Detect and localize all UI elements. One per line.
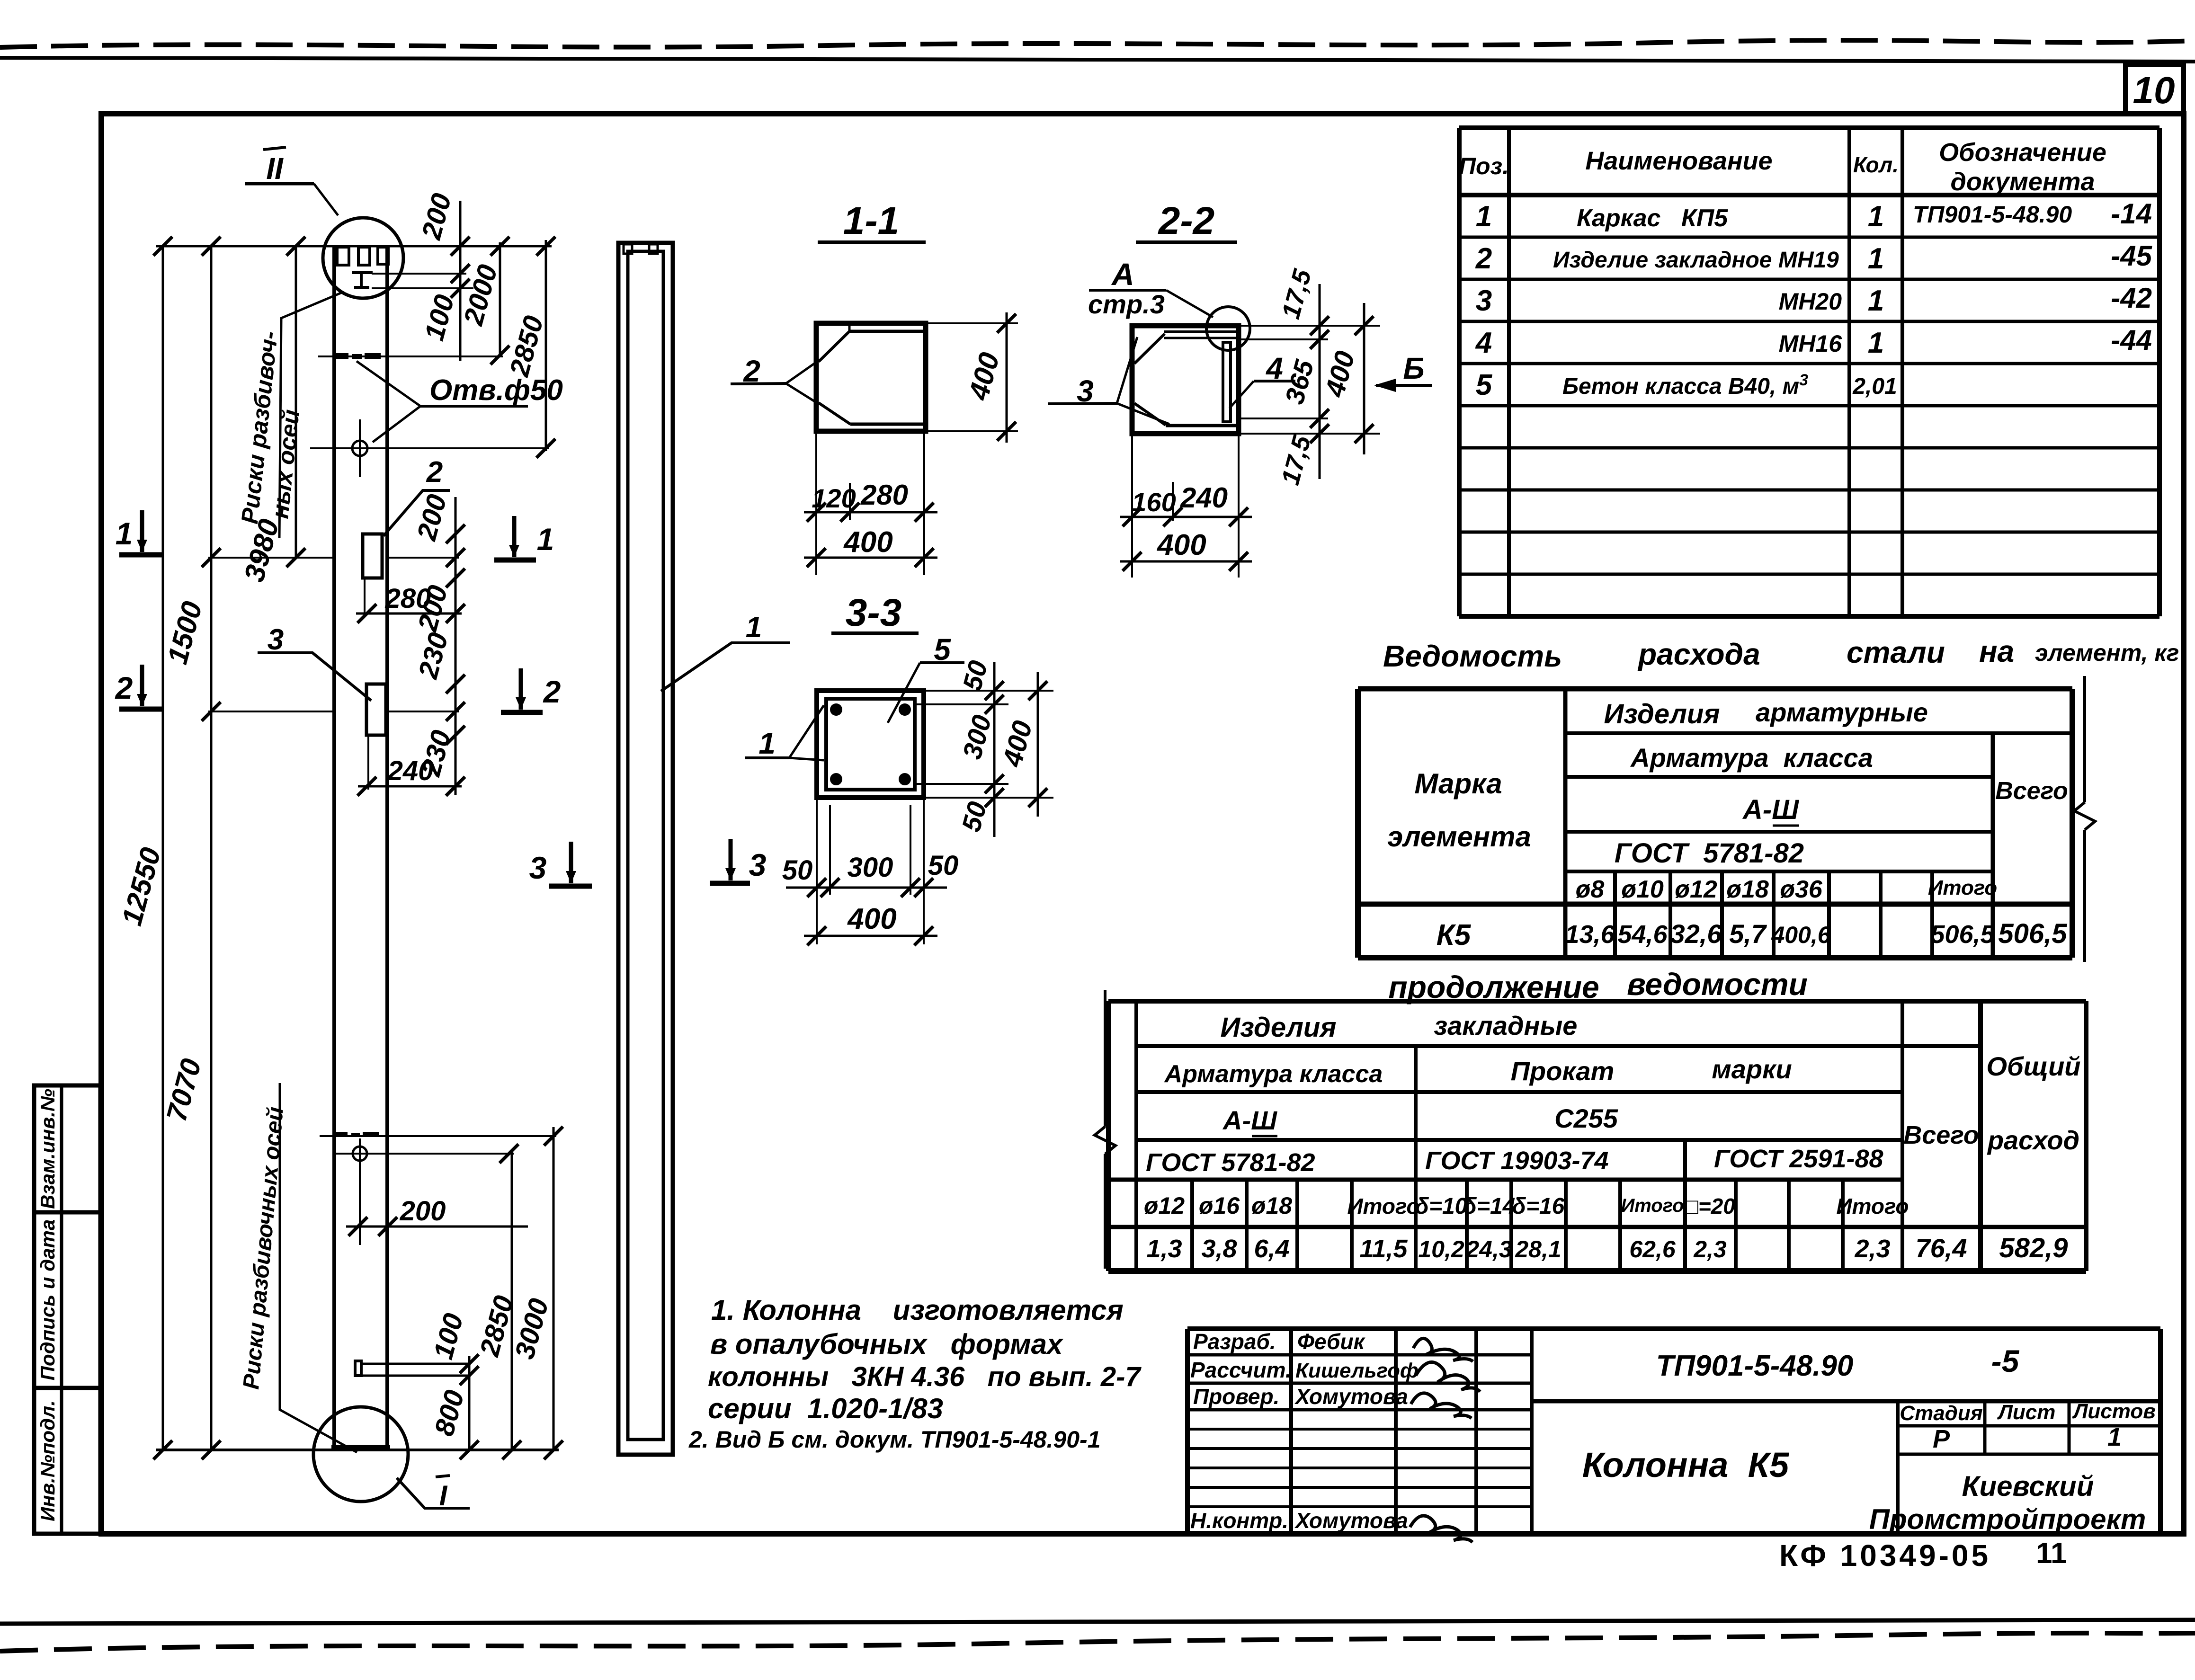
svg-text:-45: -45 bbox=[2111, 240, 2152, 272]
dim chain at plates bbox=[455, 497, 457, 795]
svg-text:Листов: Листов bbox=[2072, 1400, 2156, 1423]
svg-text:11: 11 bbox=[2036, 1537, 2067, 1570]
svg-text:76,4: 76,4 bbox=[1916, 1233, 1967, 1263]
svg-text:Ведомость: Ведомость bbox=[1383, 639, 1562, 673]
svg-text:документа: документа bbox=[1950, 168, 2095, 196]
svg-text:ø12: ø12 bbox=[1675, 876, 1717, 903]
svg-text:Подпись и дата: Подпись и дата bbox=[36, 1219, 59, 1380]
section mark 2 (left) bbox=[119, 707, 162, 712]
svg-text:ø36: ø36 bbox=[1780, 876, 1823, 903]
svg-text:Общий: Общий bbox=[1986, 1051, 2080, 1081]
svg-text:1: 1 bbox=[746, 611, 762, 644]
section line 2-2 bbox=[208, 711, 334, 712]
svg-text:50: 50 bbox=[928, 850, 959, 881]
svg-text:Промстройпроект: Промстройпроект bbox=[1869, 1503, 2146, 1535]
right dims 2-2 bbox=[1239, 325, 1380, 327]
svg-text:50: 50 bbox=[782, 855, 813, 886]
label II with leader bbox=[263, 147, 286, 150]
svg-text:ГОСТ 5781-82: ГОСТ 5781-82 bbox=[1146, 1148, 1315, 1177]
plate edge top bbox=[849, 330, 923, 333]
svg-text:МН20: МН20 bbox=[1779, 288, 1842, 315]
svg-text:62,6: 62,6 bbox=[1629, 1236, 1676, 1262]
svg-text:Провер.: Провер. bbox=[1193, 1384, 1279, 1409]
svg-text:1,3: 1,3 bbox=[1146, 1235, 1182, 1263]
svg-text:Всего: Всего bbox=[1903, 1121, 1979, 1149]
svg-text:3,8: 3,8 bbox=[1201, 1235, 1237, 1263]
top notches bbox=[337, 247, 349, 265]
detail circle A bbox=[1206, 307, 1250, 350]
detail circle I at column bottom bbox=[313, 1407, 408, 1502]
svg-text:ø8: ø8 bbox=[1576, 876, 1605, 903]
svg-text:280: 280 bbox=[860, 479, 908, 511]
top dimension line bbox=[156, 245, 552, 248]
section mark 2 (right) bbox=[501, 710, 543, 715]
svg-text:5: 5 bbox=[1476, 369, 1493, 401]
svg-text:Изделие закладное МН19: Изделие закладное МН19 bbox=[1553, 248, 1839, 273]
svg-text:24,3: 24,3 bbox=[1465, 1236, 1512, 1262]
svg-text:1. Колонна изготовляется: 1. Колонна изготовляется bbox=[711, 1294, 1124, 1326]
svg-text:Обозначение: Обозначение bbox=[1939, 138, 2106, 167]
svg-text:Наименование: Наименование bbox=[1585, 147, 1772, 175]
svg-text:Бетон класса В40, м3: Бетон класса В40, м3 bbox=[1562, 371, 1808, 399]
svg-text:Арматура класса: Арматура класса bbox=[1164, 1060, 1383, 1088]
svg-text:2: 2 bbox=[115, 670, 133, 705]
svg-text:стр.3: стр.3 bbox=[1088, 289, 1165, 319]
svg-text:1-1: 1-1 bbox=[843, 199, 900, 242]
dim 3000 bbox=[553, 1127, 555, 1450]
bottom embedded mark bbox=[355, 1361, 361, 1376]
svg-text:С255: С255 bbox=[1554, 1103, 1618, 1133]
bottom edge line bbox=[0, 1620, 2195, 1624]
svg-text:Прокат: Прокат bbox=[1511, 1056, 1615, 1086]
svg-text:5,7: 5,7 bbox=[1729, 919, 1767, 949]
svg-text:400,6: 400,6 bbox=[1771, 922, 1831, 948]
svg-text:-44: -44 bbox=[2111, 324, 2152, 356]
svg-text:Инв.№подл.: Инв.№подл. bbox=[36, 1400, 59, 1521]
svg-text:Арматура класса: Арматура класса bbox=[1630, 743, 1873, 773]
svg-text:10,2: 10,2 bbox=[1418, 1236, 1464, 1262]
svg-text:-5: -5 bbox=[1991, 1343, 2020, 1378]
svg-text:расход: расход bbox=[1987, 1125, 2079, 1155]
svg-text:Фебик: Фебик bbox=[1297, 1329, 1366, 1354]
svg-text:Н.контр.: Н.контр. bbox=[1190, 1508, 1288, 1533]
chamfer lines bbox=[1134, 334, 1165, 364]
svg-text:Хомутова: Хомутова bbox=[1294, 1384, 1408, 1409]
lower axis marks (riski) bbox=[334, 1132, 348, 1137]
svg-text:6,4: 6,4 bbox=[1254, 1235, 1289, 1263]
svg-text:Отв.ф50: Отв.ф50 bbox=[429, 374, 563, 407]
svg-text:32,6: 32,6 bbox=[1670, 919, 1722, 949]
svg-text:II: II bbox=[266, 151, 284, 186]
bottom wavy scan edge bbox=[0, 1633, 2195, 1651]
svg-text:Кол.: Кол. bbox=[1853, 152, 1899, 177]
svg-text:Киевский: Киевский bbox=[1962, 1470, 2094, 1502]
upper axis marks (riski) bbox=[334, 353, 348, 359]
svg-text:3: 3 bbox=[268, 623, 284, 656]
title block grid bbox=[1185, 1329, 1190, 1534]
column body bbox=[332, 246, 336, 1447]
svg-text:2. Вид Б см. докум. ТП901-5-48: 2. Вид Б см. докум. ТП901-5-48.90-1 bbox=[688, 1426, 1101, 1453]
lower hole bbox=[353, 1147, 367, 1161]
plate edge bottom bbox=[1166, 424, 1236, 427]
svg-text:δ=14: δ=14 bbox=[1463, 1194, 1516, 1219]
plate edges top bbox=[1164, 330, 1236, 333]
svg-text:10: 10 bbox=[2133, 69, 2175, 111]
label I with leader bbox=[397, 1478, 470, 1508]
svg-text:54,6: 54,6 bbox=[1617, 920, 1668, 949]
svg-text:закладные: закладные bbox=[1434, 1011, 1578, 1040]
svg-text:Каркас КП5: Каркас КП5 bbox=[1577, 204, 1728, 232]
section 1-1 square bbox=[816, 323, 926, 431]
svg-text:расхода: расхода bbox=[1637, 637, 1760, 671]
section mark 1 (left) bbox=[119, 552, 162, 558]
svg-text:ГОСТ 5781-82: ГОСТ 5781-82 bbox=[1615, 838, 1804, 869]
svg-text:-42: -42 bbox=[2111, 282, 2152, 314]
left margin attribute boxes bbox=[34, 1085, 100, 1534]
svg-text:1: 1 bbox=[1868, 200, 1884, 233]
section mark 1 (right) bbox=[494, 558, 536, 563]
svg-text:ведомости: ведомости bbox=[1627, 967, 1808, 1002]
svg-text:2: 2 bbox=[426, 456, 443, 489]
svg-text:Изделия: Изделия bbox=[1220, 1012, 1336, 1043]
svg-text:400: 400 bbox=[847, 903, 896, 935]
dim 2850 (bottom) bbox=[511, 1151, 513, 1450]
break line left of continuation table bbox=[1104, 990, 1106, 1127]
dim 400 right bbox=[926, 322, 1018, 324]
column elevation: left dimension lines bbox=[162, 246, 164, 1450]
svg-text:ТП901-5-48.90: ТП901-5-48.90 bbox=[1913, 201, 2072, 228]
profile view outer bbox=[618, 243, 673, 1455]
dims below 2-2 bbox=[1131, 434, 1133, 578]
svg-text:3-3: 3-3 bbox=[846, 591, 902, 634]
dims below 1-1 bbox=[815, 431, 817, 575]
svg-text:элемента: элемента bbox=[1387, 821, 1531, 853]
section line 1-1 bbox=[208, 557, 334, 559]
svg-text:2,01: 2,01 bbox=[1852, 374, 1897, 399]
embedded plate 3 bbox=[366, 684, 386, 735]
plate edge bottom bbox=[850, 423, 923, 426]
continuation table grid bbox=[1106, 1001, 1111, 1271]
dims below 3-3 bbox=[816, 798, 818, 944]
svg-text:506,5: 506,5 bbox=[1998, 918, 2067, 949]
svg-text:Изделия: Изделия bbox=[1604, 699, 1720, 729]
svg-text:582,9: 582,9 bbox=[1999, 1233, 2068, 1263]
section 2-2 square bbox=[1132, 326, 1239, 434]
detail circle II at column top bbox=[323, 218, 403, 298]
svg-text:□=20: □=20 bbox=[1685, 1194, 1735, 1218]
svg-text:3: 3 bbox=[529, 850, 547, 885]
svg-text:1: 1 bbox=[1868, 327, 1884, 359]
signatures bbox=[1413, 1338, 1473, 1361]
svg-text:Хомутова: Хомутова bbox=[1294, 1508, 1408, 1533]
svg-text:Рассчит.: Рассчит. bbox=[1190, 1358, 1292, 1382]
svg-text:1: 1 bbox=[2107, 1423, 2122, 1451]
svg-text:2,3: 2,3 bbox=[1854, 1235, 1890, 1263]
svg-text:1: 1 bbox=[1868, 284, 1884, 317]
svg-text:ø12: ø12 bbox=[1144, 1192, 1185, 1219]
svg-text:3: 3 bbox=[1476, 284, 1492, 317]
dim 100 (bottom) bbox=[468, 1356, 471, 1380]
svg-text:Итого: Итого bbox=[1837, 1194, 1909, 1218]
svg-text:Итого: Итого bbox=[1621, 1195, 1684, 1216]
svg-text:3: 3 bbox=[749, 847, 767, 882]
svg-text:240: 240 bbox=[387, 756, 434, 786]
svg-text:Б: Б bbox=[1403, 351, 1424, 385]
chamfer lines bbox=[819, 331, 849, 362]
svg-text:200: 200 bbox=[400, 1196, 446, 1227]
svg-text:Итого: Итого bbox=[1928, 876, 1997, 899]
sheet number box bbox=[2125, 64, 2184, 114]
svg-text:2: 2 bbox=[1475, 242, 1492, 275]
break line right of steel table bbox=[2083, 676, 2086, 802]
svg-text:1: 1 bbox=[1868, 242, 1884, 275]
svg-text:400: 400 bbox=[1156, 529, 1206, 561]
svg-text:Итого: Итого bbox=[1347, 1194, 1420, 1218]
stirrup inner square bbox=[826, 699, 915, 790]
svg-text:400: 400 bbox=[843, 526, 892, 559]
svg-text:120: 120 bbox=[812, 483, 856, 513]
section 3-3 outer square bbox=[817, 691, 924, 798]
dim 800 bbox=[468, 1364, 471, 1450]
svg-text:в опалубочных формах: в опалубочных формах bbox=[710, 1328, 1064, 1360]
svg-text:К5: К5 bbox=[1437, 919, 1472, 951]
rebar dots bbox=[830, 703, 842, 716]
svg-text:240: 240 bbox=[1180, 482, 1228, 514]
svg-text:280: 280 bbox=[385, 583, 431, 614]
I-shaped axis mark bbox=[352, 271, 373, 274]
svg-text:Взам.инв.№: Взам.инв.№ bbox=[36, 1089, 59, 1209]
svg-text:2: 2 bbox=[543, 674, 561, 709]
svg-text:4: 4 bbox=[1475, 327, 1492, 359]
svg-text:506,5: 506,5 bbox=[1930, 920, 1995, 949]
svg-text:1: 1 bbox=[758, 726, 776, 760]
svg-text:δ=16: δ=16 bbox=[1512, 1194, 1565, 1219]
svg-text:А-Ш: А-Ш bbox=[1742, 794, 1799, 825]
svg-text:Всего: Всего bbox=[1995, 777, 2068, 805]
svg-text:МН16: МН16 bbox=[1779, 330, 1843, 357]
svg-text:28,1: 28,1 bbox=[1515, 1236, 1561, 1262]
svg-text:-14: -14 bbox=[2111, 198, 2152, 230]
profile top notches bbox=[624, 244, 632, 254]
svg-text:160: 160 bbox=[1132, 487, 1176, 517]
svg-text:1: 1 bbox=[1476, 200, 1492, 233]
svg-text:2,3: 2,3 bbox=[1693, 1236, 1727, 1262]
svg-text:серии 1.020-1/83: серии 1.020-1/83 bbox=[708, 1393, 943, 1424]
section mark 3 (left) bbox=[549, 884, 592, 889]
svg-text:δ=10: δ=10 bbox=[1415, 1194, 1468, 1219]
embedded plate 2 bbox=[363, 534, 382, 578]
svg-text:ø10: ø10 bbox=[1621, 876, 1664, 903]
svg-text:Колонна К5: Колонна К5 bbox=[1582, 1445, 1790, 1484]
plate 4 (vertical, right) bbox=[1223, 342, 1231, 422]
svg-text:Поз.: Поз. bbox=[1459, 153, 1509, 179]
svg-text:1: 1 bbox=[537, 522, 554, 557]
svg-text:Лист: Лист bbox=[1997, 1401, 2056, 1424]
upper hole Отв ф50 bbox=[352, 441, 367, 456]
svg-text:элемент, кг: элемент, кг bbox=[2035, 640, 2179, 666]
svg-text:11,5: 11,5 bbox=[1359, 1235, 1408, 1263]
svg-text:13,6: 13,6 bbox=[1565, 920, 1615, 949]
svg-text:Стадия: Стадия bbox=[1900, 1402, 1982, 1425]
profile view inner bbox=[628, 251, 663, 1440]
svg-text:ТП901-5-48.90: ТП901-5-48.90 bbox=[1656, 1350, 1854, 1382]
svg-text:стали: стали bbox=[1847, 635, 1945, 669]
svg-text:ø16: ø16 bbox=[1199, 1192, 1240, 1219]
svg-text:Р: Р bbox=[1933, 1425, 1950, 1453]
svg-text:ø18: ø18 bbox=[1251, 1192, 1292, 1219]
section mark 3 (right) bbox=[710, 881, 750, 886]
svg-text:1: 1 bbox=[116, 516, 133, 551]
svg-text:ø18: ø18 bbox=[1726, 876, 1769, 903]
svg-text:I: I bbox=[439, 1480, 448, 1511]
svg-text:ГОСТ 19903-74: ГОСТ 19903-74 bbox=[1425, 1147, 1609, 1175]
svg-text:ГОСТ 2591-88: ГОСТ 2591-88 bbox=[1714, 1145, 1883, 1173]
svg-text:Разраб.: Разраб. bbox=[1193, 1329, 1276, 1354]
svg-text:КФ 10349-05: КФ 10349-05 bbox=[1779, 1538, 1991, 1573]
svg-text:арматурные: арматурные bbox=[1756, 697, 1928, 727]
steel table grid bbox=[1355, 689, 1361, 958]
top-right dim chains bbox=[459, 201, 462, 361]
svg-text:300: 300 bbox=[848, 852, 893, 883]
svg-text:колонны 3КН 4.36 по вып. 2: колонны 3КН 4.36 по вып. 2-7 bbox=[708, 1361, 1142, 1392]
right dims 3-3 bbox=[924, 690, 1053, 692]
svg-text:на: на bbox=[1979, 634, 2014, 668]
svg-text:2-2: 2-2 bbox=[1158, 199, 1215, 242]
bottom dimension line bbox=[156, 1449, 559, 1451]
svg-text:Кишельгоф: Кишельгоф bbox=[1295, 1359, 1419, 1382]
top wavy scan edge bbox=[0, 40, 2195, 47]
svg-text:А: А bbox=[1111, 257, 1134, 292]
parts list table bbox=[1457, 128, 1462, 616]
svg-text:А-Ш: А-Ш bbox=[1222, 1105, 1277, 1135]
top edge line bbox=[0, 58, 2195, 62]
svg-text:Марка: Марка bbox=[1414, 768, 1502, 800]
svg-text:марки: марки bbox=[1712, 1054, 1792, 1084]
